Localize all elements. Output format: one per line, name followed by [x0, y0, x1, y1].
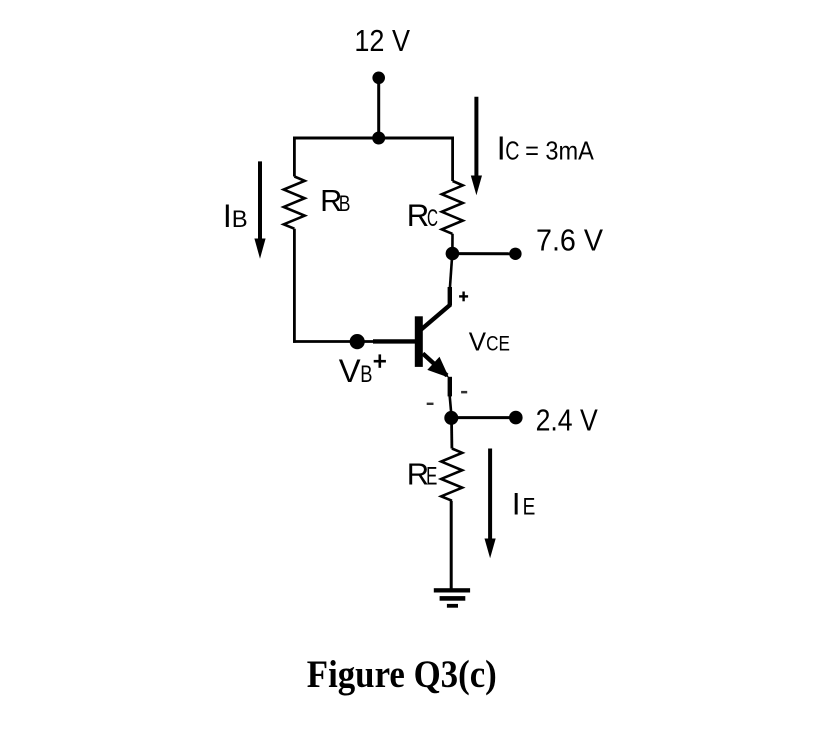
- junction: emitter node dot: [444, 411, 458, 425]
- current arrow IB: [254, 161, 265, 258]
- wire: base wire: [293, 340, 374, 343]
- svg-text:2.4 V: 2.4 V: [536, 404, 599, 438]
- svg-text:RB: RB: [320, 183, 350, 218]
- label: - at emitter: [461, 391, 467, 394]
- label: + at collector: [459, 292, 468, 302]
- resistor RE: [441, 449, 462, 501]
- resistor RB: [284, 177, 305, 229]
- wire: 2.4 V tap: [451, 416, 516, 419]
- label: + superscript of VB: [374, 354, 386, 367]
- node: 7.6 V terminal dot: [509, 248, 521, 260]
- svg-text:IB: IB: [223, 198, 248, 234]
- wire: RE to ground: [450, 501, 453, 589]
- transistor Q1 base lead (thick): [373, 339, 416, 343]
- wire: emitter thin lead: [450, 396, 452, 413]
- svg-text:VCE: VCE: [469, 328, 510, 356]
- wire: supply stub: [377, 78, 380, 138]
- label: - at emitter node: [427, 403, 434, 405]
- wire: left drop to RB: [293, 137, 296, 177]
- junction: base node dot: [350, 334, 365, 349]
- wire: RC to collector node: [451, 234, 454, 250]
- wire: 7.6 V tap: [452, 252, 515, 255]
- node: 2.4 V terminal dot: [509, 411, 523, 425]
- svg-text:RE: RE: [407, 456, 438, 491]
- svg-text:VB: VB: [339, 352, 373, 389]
- svg-text:IC= 3mA: IC= 3mA: [497, 130, 595, 167]
- svg-text:7.6 V: 7.6 V: [536, 223, 604, 257]
- wire: top rail: [293, 137, 454, 140]
- svg-text:RC: RC: [407, 198, 438, 233]
- node: supply terminal dot: [372, 72, 385, 85]
- junction: top rail node dot: [372, 132, 385, 145]
- transistor Q1 collector lead (thick): [420, 287, 451, 331]
- wire: emitter node to RE: [450, 418, 453, 449]
- junction: collector node dot: [446, 247, 460, 261]
- wire: right drop to RC: [451, 137, 454, 182]
- current arrow IE: [485, 449, 496, 559]
- wire: RB to base rail: [293, 229, 296, 343]
- svg-text:12 V: 12 V: [354, 23, 410, 58]
- wire: collector thin lead: [450, 254, 452, 289]
- current arrow IC: [471, 97, 482, 196]
- resistor RC: [442, 181, 463, 234]
- ground symbol: [434, 588, 470, 608]
- svg-text:Figure Q3(c): Figure Q3(c): [307, 652, 497, 696]
- transistor Q1 base bar: [415, 316, 423, 367]
- svg-text:IE: IE: [512, 486, 536, 522]
- transistor Q1 emitter lead with arrowhead: [423, 354, 450, 397]
